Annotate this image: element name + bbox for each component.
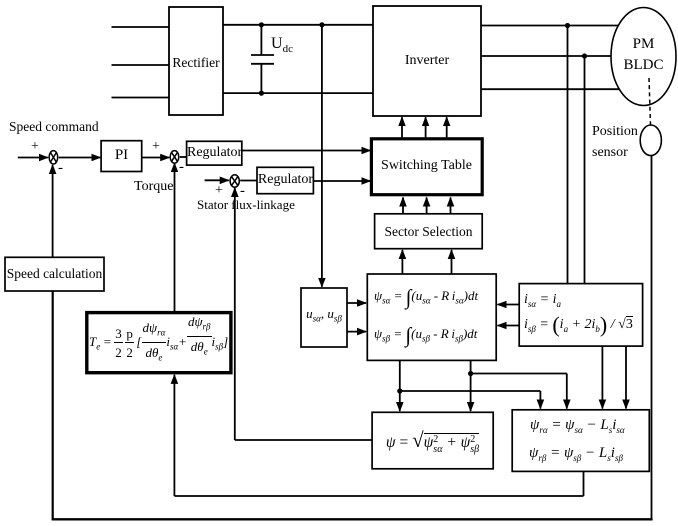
wire integration to sector selection 2 (451, 250, 453, 274)
box Sector Selection (375, 214, 483, 249)
wire current box to integration box 1 (498, 304, 520, 306)
box Regulator 1 (187, 141, 242, 165)
formula is-alpha (524, 292, 561, 309)
box Speed calculation (5, 257, 104, 291)
wire psi-s-beta down to psi box (470, 360, 472, 411)
wire inverter output phase a (481, 25, 642, 27)
wire DC bus bottom (223, 92, 373, 94)
wire junction2 to Regulator1 (180, 156, 187, 158)
summing junction 1 (49, 151, 58, 164)
box Switching Table (371, 139, 482, 195)
wire speed feedback bottom (52, 518, 653, 520)
box Regulator 2 (257, 167, 313, 193)
wire current tap ib down to current box (584, 56, 586, 284)
wire current box to integration box 2 (498, 325, 520, 327)
wire speed calculation up to summing junction 1 (52, 165, 54, 257)
wire sector selection to switching table 2 (426, 198, 428, 214)
label plus junction2 (152, 139, 160, 155)
box psi-r equations (512, 410, 649, 472)
label Speed command (9, 119, 99, 135)
wire dashed motor to position sensor (649, 78, 651, 125)
label Stator flux-linkage (197, 197, 295, 213)
wire sector selection to switching table 1 (402, 198, 404, 214)
label minus junction3 (240, 183, 245, 200)
wire Regulator2 to Switching Table (313, 180, 370, 182)
box integration equations (367, 274, 496, 360)
wire is-alpha down to psi-r box (601, 346, 603, 408)
label PM BLDC (611, 34, 676, 76)
wire AC input phase 2 (112, 64, 170, 66)
label Position sensor (592, 121, 638, 163)
formula psi-s-beta integral (374, 323, 477, 348)
label Udc (271, 35, 293, 55)
capacitor C Udc (251, 25, 274, 93)
label Inverter (373, 53, 481, 69)
junction dot DC tap (319, 22, 324, 27)
formula torque equation (89, 315, 231, 371)
wire psi-s-alpha down to psi box (399, 360, 401, 411)
label plus junction3 (215, 183, 223, 199)
wire PI to junction2 (142, 157, 170, 159)
wire sector selection to switching table 3 (450, 198, 452, 214)
wire speed command input arrow (18, 157, 48, 159)
box Rectifier (169, 7, 223, 115)
wire inverter output phase c (481, 88, 642, 90)
wire switching table to inverter 1 (401, 117, 403, 139)
label plus junction1 (31, 139, 39, 155)
box u-s-alpha-beta (301, 288, 347, 347)
wire junction3 to Regulator2 (240, 180, 257, 182)
wire bottom up to speed calculation (52, 291, 54, 519)
wire DC voltage tap down to u box (321, 25, 323, 287)
wire AC input phase 3 (112, 97, 170, 99)
box current equations (519, 284, 642, 347)
label Rectifier (169, 55, 223, 71)
box Inverter (373, 6, 481, 116)
wire torque feedback up to junction2 (174, 163, 176, 312)
label Regulator 2 (257, 172, 314, 188)
wire current tap ia down to current box (567, 26, 569, 284)
wire integration to sector selection 1 (401, 250, 403, 274)
wire psi-s-beta branch horizontal (471, 373, 567, 375)
formula psi magnitude (372, 414, 493, 468)
junction dot psi-s-alpha branch (397, 388, 402, 393)
formula psi-r-beta (529, 445, 623, 463)
wire up into torque box (173, 375, 175, 496)
wire junction1 to PI (59, 157, 101, 159)
wire is-beta down to psi-r box (625, 346, 627, 408)
label Sector Selection (375, 224, 482, 240)
wire Regulator1 to Switching Table (242, 150, 370, 152)
wire psi-r output down (583, 471, 585, 496)
wire psi-s-alpha branch down to psi-r box (539, 391, 541, 409)
junction dot capacitor bottom (259, 91, 264, 96)
wire flux feedback horizontal (235, 439, 372, 441)
box PI (101, 141, 142, 172)
label PI (101, 147, 142, 164)
wire switching table to inverter 3 (446, 117, 448, 139)
wire flux reference input arrow (205, 179, 229, 181)
wire position sensor down (651, 156, 653, 520)
position sensor circle (640, 125, 661, 156)
formula psi-r-alpha (530, 417, 625, 435)
label u-s-alpha u-s-beta (301, 306, 347, 324)
formula psi-s-alpha integral (374, 285, 478, 310)
wire DC bus top (223, 24, 373, 26)
label Speed calculation (5, 266, 104, 282)
wire AC input phase 1 (112, 26, 170, 28)
wire psi-s-alpha branch horizontal (400, 390, 541, 392)
wire psi-r output horizontal (174, 495, 583, 497)
summing junction 2 (170, 151, 179, 164)
label Switching Table (371, 158, 482, 174)
junction dot ia tap (565, 23, 570, 28)
wire inverter output phase b (481, 55, 642, 57)
label Torque (134, 179, 173, 195)
label minus junction1 (58, 160, 63, 177)
wire switching table to inverter 2 (425, 117, 427, 139)
label Regulator 1 (187, 145, 242, 161)
wire flux feedback up to junction3 (234, 188, 236, 440)
box psi magnitude (372, 412, 493, 469)
junction dot psi-s-beta branch (468, 371, 473, 376)
wire u box to integration box 2 (347, 331, 366, 333)
wire u box to integration box 1 (347, 302, 366, 304)
motor PM BLDC (611, 8, 676, 106)
formula is-beta (524, 312, 633, 338)
junction dot capacitor top (259, 22, 264, 27)
wire psi-s-beta branch down to psi-r box (566, 374, 568, 409)
label minus junction2 (179, 159, 184, 176)
junction dot ib tap (582, 53, 587, 58)
box torque equation (87, 313, 231, 373)
summing junction 3 (230, 175, 239, 187)
